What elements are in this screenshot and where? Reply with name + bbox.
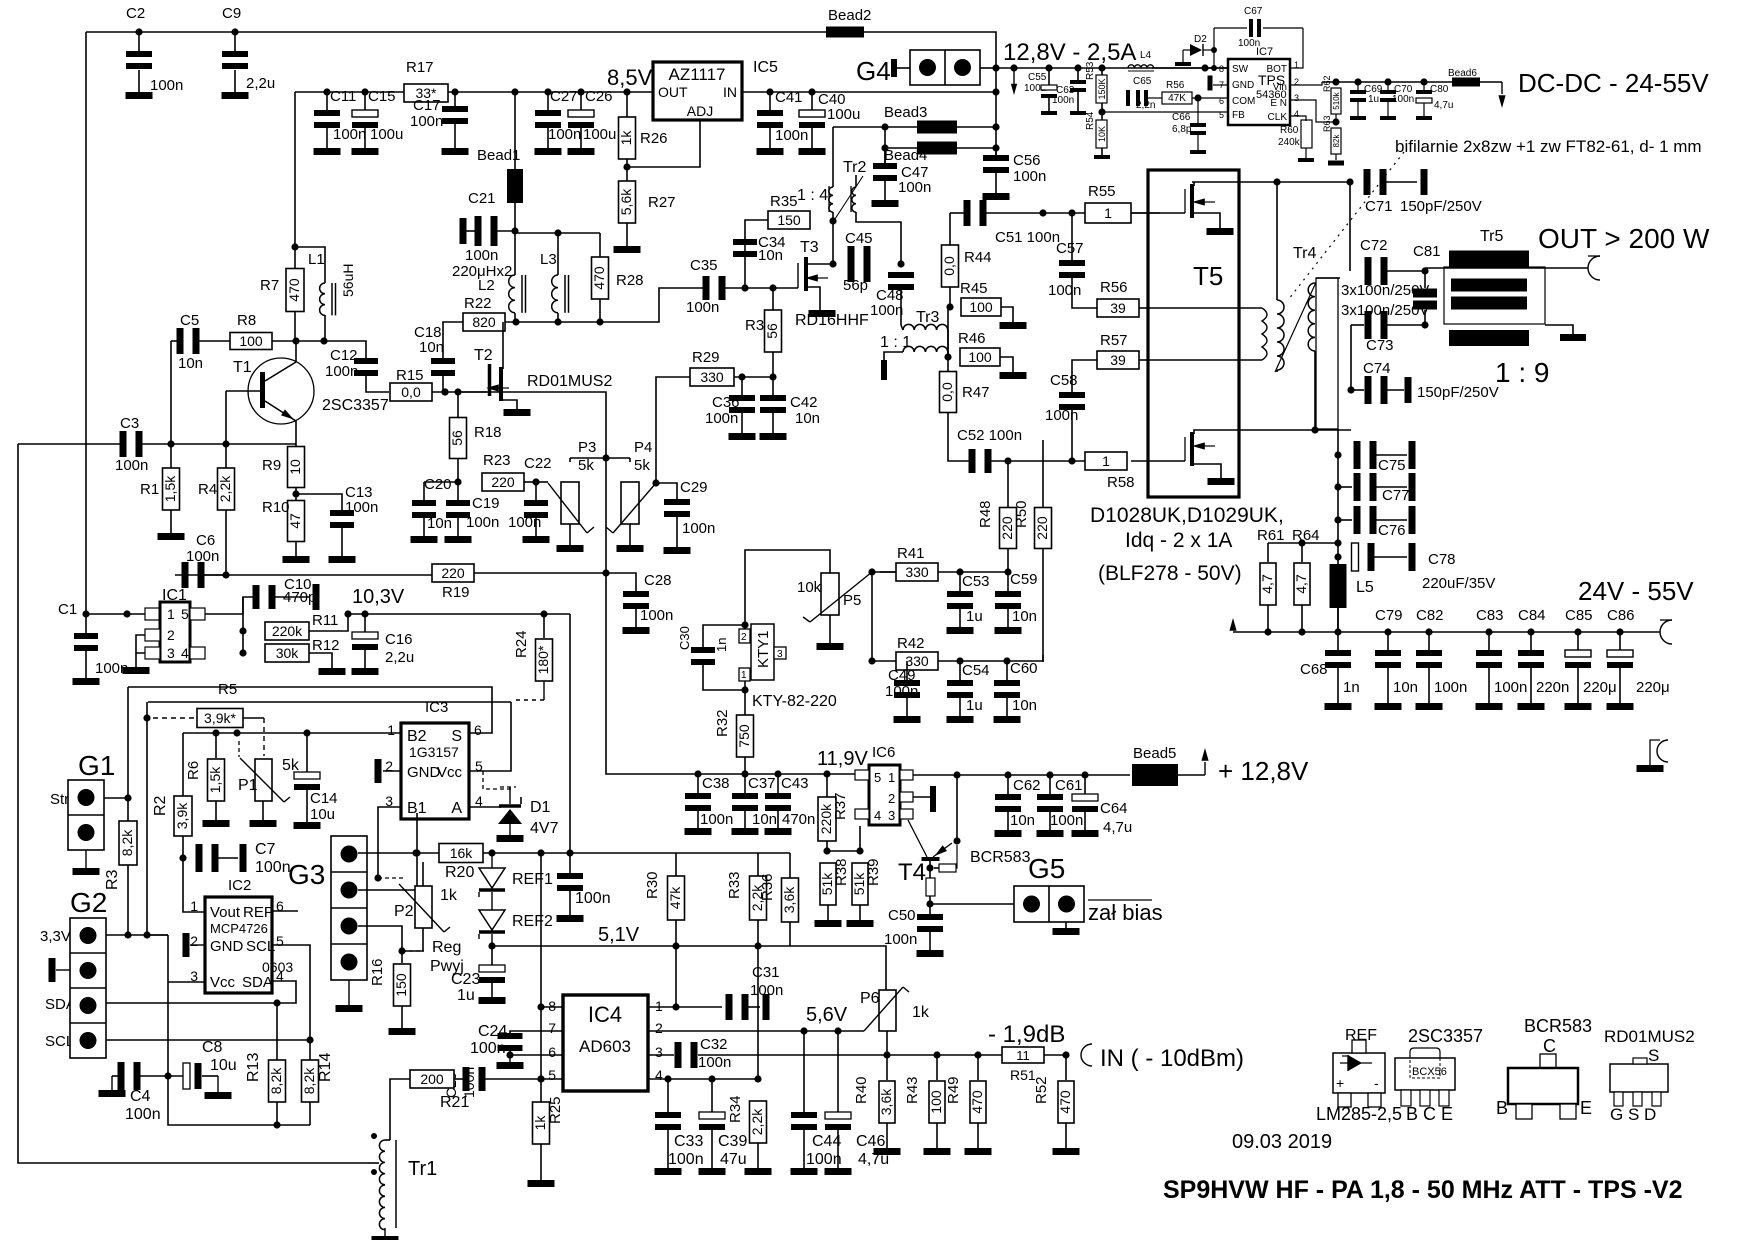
wire COM link [1192, 97, 1228, 99]
wire BOT to R60 [1290, 116, 1306, 121]
node R5 junction [143, 714, 150, 721]
svg-text:R26: R26 [640, 130, 668, 147]
node C51 junctions [1039, 209, 1075, 216]
svg-text:C80: C80 [1430, 84, 1449, 95]
svg-text:8: 8 [1219, 64, 1224, 74]
svg-text:Reg: Reg [432, 939, 461, 956]
ground R49 [965, 1148, 992, 1155]
wire 16k net [439, 852, 441, 854]
svg-text:5: 5 [874, 770, 881, 785]
svg-text:S: S [1648, 1046, 1659, 1065]
resistor R13 [245, 1003, 286, 1125]
ground C84 [1518, 703, 1545, 710]
node C76 junction [1334, 516, 1341, 523]
resistor R51 [1002, 1047, 1044, 1083]
svg-text:100n: 100n [698, 1054, 731, 1071]
node R35 out [829, 217, 836, 224]
wire C1 row [86, 613, 145, 615]
capacitor C82 [1416, 607, 1467, 703]
svg-text:T1: T1 [233, 359, 252, 376]
label OUT 200W [1538, 223, 1710, 254]
ground IC1 [123, 653, 150, 674]
resistor R39 [851, 858, 882, 920]
svg-text:R39: R39 [865, 858, 882, 886]
capacitor C62 [995, 775, 1041, 830]
svg-text:10K: 10K [1097, 126, 1107, 142]
label DC-DC 24-55V [1518, 68, 1709, 98]
ground C16 [352, 668, 379, 675]
wire G3 pin1 [358, 852, 440, 854]
svg-text:100n: 100n [1013, 168, 1046, 185]
resistor R60 [1278, 120, 1314, 162]
ground C27 [535, 148, 562, 155]
svg-text:C41: C41 [775, 89, 803, 106]
svg-text:C74: C74 [1363, 360, 1391, 377]
wire R2 to IC2 [183, 858, 205, 912]
capacitor C65 [1126, 76, 1162, 111]
svg-text:24V - 55V: 24V - 55V [1578, 576, 1694, 606]
node 3.3V junctions [124, 931, 150, 938]
svg-text:D1028UK,D1029UK,: D1028UK,D1029UK, [1090, 504, 1284, 527]
wire G1 out [104, 797, 128, 799]
node C2 junction [135, 28, 142, 35]
svg-text:P1: P1 [238, 777, 258, 794]
svg-text:2,2k: 2,2k [749, 1108, 765, 1135]
op-amp IC5 AZ1117 [653, 59, 778, 120]
svg-text:4: 4 [655, 1067, 663, 1083]
resistor R52 [1033, 1055, 1074, 1148]
ground C49 [894, 716, 921, 723]
capacitor C18 [414, 324, 455, 376]
svg-text:C85: C85 [1565, 607, 1593, 624]
ground C23 [479, 997, 506, 1004]
package 2SC3357 [1395, 1026, 1483, 1124]
resistor R35 [768, 193, 810, 229]
svg-text:C32: C32 [700, 1036, 728, 1053]
wire Tr4 to C73 col [1315, 429, 1351, 431]
node SCL junction [306, 1036, 313, 1043]
inductor L5 [1330, 564, 1374, 632]
svg-text:Bead5: Bead5 [1133, 745, 1176, 762]
capacitor C11 [314, 88, 366, 148]
svg-text:KTY1: KTY1 [755, 630, 772, 668]
wire P5 top loop [745, 550, 830, 625]
node R61 junction [1298, 539, 1305, 546]
capacitor C51 [950, 200, 1060, 246]
svg-text:220μ: 220μ [1636, 679, 1670, 696]
ground C11 [314, 148, 341, 155]
ground R16 [389, 1028, 416, 1035]
wire 12.8V net down [995, 50, 997, 155]
capacitor C16 [352, 614, 414, 668]
svg-text:+ 12,8V: + 12,8V [1218, 756, 1309, 786]
capacitor C34 [733, 234, 786, 288]
potentiometer P2 [394, 862, 458, 932]
svg-text:C12: C12 [330, 347, 358, 364]
resistor R38 [819, 851, 850, 920]
capacitor C68 1n [1325, 632, 1360, 703]
resistor R2 [152, 733, 192, 858]
svg-text:MCP4726: MCP4726 [210, 921, 268, 936]
node Vcc junctions [164, 1072, 280, 1128]
node C77 junction [1334, 483, 1341, 490]
wire KTY pin2 [744, 625, 746, 629]
capacitor C32 [675, 1036, 732, 1071]
wire DCDC arrow [1498, 82, 1505, 108]
svg-text:100n: 100n [640, 607, 673, 624]
svg-text:C68: C68 [1300, 661, 1328, 678]
node R19 junction [602, 569, 609, 576]
resistor R63 [1322, 115, 1344, 165]
svg-text:220k: 220k [272, 623, 303, 639]
svg-text:6: 6 [474, 722, 482, 738]
node C52 junctions [1004, 457, 1075, 464]
capacitor C24 [470, 1023, 563, 1057]
op-amp IC4 AD603 [548, 995, 663, 1091]
svg-text:1: 1 [655, 998, 663, 1014]
resistor R5 box [197, 709, 264, 757]
ground C42 [760, 433, 787, 440]
svg-text:C56: C56 [1013, 152, 1041, 169]
label C68 [1300, 661, 1328, 678]
node T4 out junction [926, 900, 933, 907]
svg-text:100n: 100n [1052, 95, 1074, 106]
label 24V-55V [1578, 576, 1694, 606]
svg-text:3: 3 [655, 1044, 663, 1060]
svg-text:0,0: 0,0 [941, 256, 957, 276]
svg-text:D1: D1 [530, 799, 551, 816]
svg-text:DC-DC - 24-55V: DC-DC - 24-55V [1518, 68, 1709, 98]
node C81 top junction [1421, 267, 1428, 274]
svg-text:C42: C42 [790, 394, 818, 411]
wire C57 to R56 [1072, 298, 1097, 308]
capacitor C17 [410, 92, 468, 148]
wire G3 pin2 [358, 890, 417, 951]
connector gnd lower [1650, 740, 1668, 765]
resistor R43 [904, 1055, 945, 1148]
svg-text:C58: C58 [1050, 372, 1078, 389]
resistor R57 [1097, 332, 1148, 369]
package REF LM285 [1316, 1027, 1402, 1124]
wire left col x128 [127, 687, 129, 798]
svg-text:C: C [1543, 1036, 1556, 1056]
wire R45 col down [948, 307, 950, 357]
wire IC6 pin2 stub [913, 786, 936, 812]
resistor R54 [1085, 111, 1110, 159]
svg-text:R10: R10 [262, 499, 290, 516]
ground C1 [73, 678, 100, 685]
node L3 top junction [515, 229, 600, 236]
svg-text:100n: 100n [870, 302, 903, 319]
svg-text:100n: 100n [686, 299, 719, 316]
svg-text:R19: R19 [442, 584, 470, 601]
package RD01MUS2 [1604, 1027, 1695, 1124]
wire P4 wiper [606, 483, 656, 533]
svg-text:REF1: REF1 [512, 871, 553, 888]
svg-text:R27: R27 [648, 194, 676, 211]
wire x540 column [540, 853, 542, 1079]
ground C59 [995, 627, 1022, 634]
svg-text:2: 2 [888, 791, 895, 806]
svg-text:100n: 100n [668, 1151, 704, 1168]
svg-text:100n: 100n [1434, 679, 1467, 696]
svg-text:T2: T2 [474, 347, 493, 364]
svg-text:C45: C45 [845, 230, 873, 247]
svg-text:100n: 100n [700, 811, 733, 828]
transistor T2 RD01MUS2 [460, 322, 612, 409]
svg-text:2,2k: 2,2k [217, 475, 233, 502]
diode D1 4V7 [498, 797, 559, 837]
svg-text:P3: P3 [578, 439, 596, 456]
svg-text:10k: 10k [797, 579, 822, 596]
capacitor C41 [757, 89, 808, 148]
svg-text:R50: R50 [1013, 500, 1030, 528]
svg-text:C65: C65 [1133, 76, 1152, 87]
svg-text:100n: 100n [1050, 812, 1083, 829]
svg-text:470: 470 [1057, 1090, 1073, 1114]
node 5.1V junctions [672, 942, 761, 949]
svg-text:GND: GND [407, 764, 441, 781]
node C7 junction [179, 854, 186, 861]
wire S-net top [128, 687, 492, 733]
svg-text:E: E [1580, 1098, 1592, 1118]
svg-text:C52 100n: C52 100n [957, 427, 1022, 444]
svg-text:8,5V: 8,5V [607, 65, 653, 90]
capacitor C22 [508, 455, 552, 536]
node G1 junction [124, 794, 131, 801]
capacitor C49 [885, 661, 920, 716]
resistor R26 [618, 92, 668, 159]
svg-text:R14: R14 [317, 1053, 334, 1082]
svg-text:100n: 100n [548, 126, 581, 143]
wire drain rail [505, 288, 706, 322]
svg-text:R29: R29 [692, 349, 720, 366]
svg-text:C53: C53 [962, 573, 990, 590]
node IN junctions [883, 1051, 981, 1058]
svg-text:IN: IN [723, 84, 737, 100]
capacitor C46 [825, 1031, 889, 1168]
op-amp IC2 MCP4726 [190, 877, 293, 993]
capacitor C35 [686, 257, 726, 316]
capacitor C60 [994, 660, 1038, 716]
svg-text:100n: 100n [465, 247, 498, 264]
node T2 gate junctions [441, 388, 461, 395]
wire pin1 [648, 1006, 676, 1008]
node D2 junction [1201, 64, 1208, 71]
svg-text:47u: 47u [720, 1151, 747, 1168]
capacitor C72 [1360, 237, 1425, 285]
svg-text:82k: 82k [1332, 134, 1341, 148]
wire G4 to rail [980, 67, 996, 69]
wire R28 top [599, 233, 601, 257]
resistor R58 [1085, 452, 1135, 491]
svg-text:3: 3 [777, 649, 783, 660]
resistor R6 [185, 733, 225, 820]
ground C50 [917, 950, 944, 957]
node R26-R27 junction [623, 159, 630, 181]
ground C82 [1416, 703, 1443, 710]
svg-text:470: 470 [286, 278, 302, 302]
svg-text:RD01MUS2: RD01MUS2 [1604, 1027, 1695, 1046]
wire C34 to R35 [745, 220, 768, 239]
wire pin4 row [648, 1078, 758, 1080]
svg-text:C59: C59 [1010, 571, 1038, 588]
node 5.6V junctions [800, 1027, 841, 1034]
node B2 junctions [212, 729, 310, 736]
svg-text:2,2u: 2,2u [385, 649, 414, 666]
wire R48 top [1007, 461, 1009, 508]
svg-text:1n: 1n [714, 638, 729, 652]
ground C56 [983, 193, 1010, 200]
svg-text:R56: R56 [1166, 80, 1185, 91]
svg-text:220μ: 220μ [1583, 679, 1617, 696]
resistor R34 [727, 1095, 767, 1168]
svg-text:R4: R4 [198, 481, 217, 498]
svg-text:R20: R20 [445, 864, 474, 881]
svg-text:C35: C35 [690, 257, 718, 274]
svg-text:1G3157: 1G3157 [409, 744, 459, 760]
wire IC1 pins23 gnd [127, 614, 145, 667]
svg-text:C29: C29 [680, 479, 708, 496]
wire IC5 IN to C41 [742, 91, 996, 93]
svg-text:100u: 100u [827, 106, 860, 123]
node R11 junction [239, 627, 246, 634]
ground R39 [847, 920, 874, 927]
ground R45 [1000, 322, 1027, 329]
svg-text:100n: 100n [1048, 282, 1081, 299]
wire Tr1 mid tap [368, 1162, 379, 1164]
resistor R10 [262, 499, 305, 556]
svg-text:4V7: 4V7 [530, 820, 559, 837]
svg-text:1u: 1u [966, 697, 983, 714]
svg-text:L1: L1 [308, 251, 325, 268]
resistor R12 [265, 637, 340, 668]
resistor R58b 47K [1162, 80, 1192, 104]
capacitor C84 [1518, 607, 1569, 703]
svg-text:5,6k: 5,6k [618, 188, 634, 215]
ferrite bead Bead2 [826, 7, 871, 38]
wire R33 col low [757, 946, 759, 1079]
svg-text:R30: R30 [644, 871, 661, 899]
resistor R30 [644, 871, 685, 946]
svg-text:8,2k: 8,2k [268, 1067, 284, 1094]
ground P5 [817, 643, 844, 650]
ground C36 [729, 433, 756, 440]
node P4 wiper junction [652, 479, 659, 486]
svg-text:5: 5 [1219, 110, 1224, 120]
svg-text:R25: R25 [547, 1096, 564, 1124]
wire bias to P34 [458, 392, 606, 458]
wire B2 line [183, 732, 401, 734]
wire IC3 pin5 [469, 702, 511, 771]
svg-text:8,2k: 8,2k [301, 1067, 317, 1094]
ground T5 lower [1208, 478, 1235, 485]
svg-text:B: B [1496, 1098, 1508, 1118]
resistor R7 [260, 247, 304, 341]
svg-text:ADJ: ADJ [687, 103, 713, 119]
capacitor C4 [112, 1062, 168, 1123]
svg-text:11,9V: 11,9V [817, 748, 868, 770]
svg-text:LM285-2,5: LM285-2,5 [1316, 1104, 1402, 1124]
label 11,9V [817, 748, 868, 770]
svg-text:Str: Str [50, 791, 69, 808]
label Reg Pwyj [430, 939, 464, 975]
svg-text:R34: R34 [727, 1095, 744, 1123]
svg-text:10n: 10n [178, 355, 203, 372]
op-amp IC7 TPS54360 [1219, 46, 1299, 125]
label 5,6V [806, 1004, 848, 1026]
capacitor C38 [685, 774, 733, 828]
connector G5 [1014, 853, 1084, 922]
transformer Tr1 [368, 1133, 437, 1236]
label R5 [218, 681, 237, 698]
ground R12 [319, 668, 346, 675]
node pin1 junction [672, 1003, 679, 1010]
resistor R15 [390, 367, 432, 401]
svg-text:Bead3: Bead3 [884, 104, 927, 121]
svg-text:100n: 100n [575, 890, 611, 907]
ground lower connector [1637, 765, 1664, 772]
wire R23 out [524, 481, 536, 483]
ground C40 [799, 148, 826, 155]
wire R20 col [416, 813, 418, 890]
svg-text:3,9k: 3,9k [174, 802, 190, 829]
wire R24 dashed [513, 681, 544, 700]
svg-text:100u: 100u [583, 126, 616, 143]
wire R64 link [1302, 542, 1338, 544]
svg-text:Vout: Vout [210, 904, 241, 921]
resistor R17 [404, 59, 448, 102]
ground P4 [617, 545, 644, 552]
capacitor C10 [243, 576, 320, 614]
node R46 junction [944, 353, 951, 360]
resistor R27 [618, 181, 676, 246]
svg-text:C17: C17 [413, 97, 441, 114]
svg-text:REF: REF [243, 904, 273, 921]
svg-text:10n: 10n [1393, 679, 1418, 696]
svg-text:750: 750 [736, 724, 752, 748]
node R15 out [441, 388, 448, 395]
svg-text:1u: 1u [966, 608, 983, 625]
wire R7 feed [294, 92, 296, 247]
svg-text:R56: R56 [1100, 279, 1128, 296]
wire Tr4 right coil bottom [1314, 351, 1316, 430]
wire IC3 pin2 gnd [375, 759, 402, 783]
ground R43 [924, 1148, 951, 1155]
connector G2 [40, 887, 107, 1058]
wire T5 mid lower [1148, 308, 1262, 360]
svg-text:G4: G4 [856, 56, 891, 86]
svg-text:C15: C15 [368, 88, 396, 105]
ground R27 [614, 246, 641, 253]
svg-text:C64: C64 [1100, 800, 1128, 817]
label KTY-82-220 [752, 693, 837, 710]
svg-text:4: 4 [874, 808, 881, 823]
svg-text:2,2u: 2,2u [246, 75, 275, 92]
capacitor C74 [1351, 360, 1499, 404]
svg-text:C73: C73 [1366, 337, 1394, 354]
ground C2 [126, 92, 153, 99]
capacitor C43 [765, 774, 815, 828]
label RD16HHF [795, 312, 869, 329]
label 220uHx2 [452, 263, 512, 280]
resistor R31 [745, 288, 782, 377]
inductor L1 [295, 247, 356, 341]
wire 10.3V rail [348, 613, 570, 615]
svg-text:B2: B2 [407, 728, 427, 745]
wire KTY pin1 [744, 681, 746, 715]
label 8.5V [607, 65, 653, 90]
